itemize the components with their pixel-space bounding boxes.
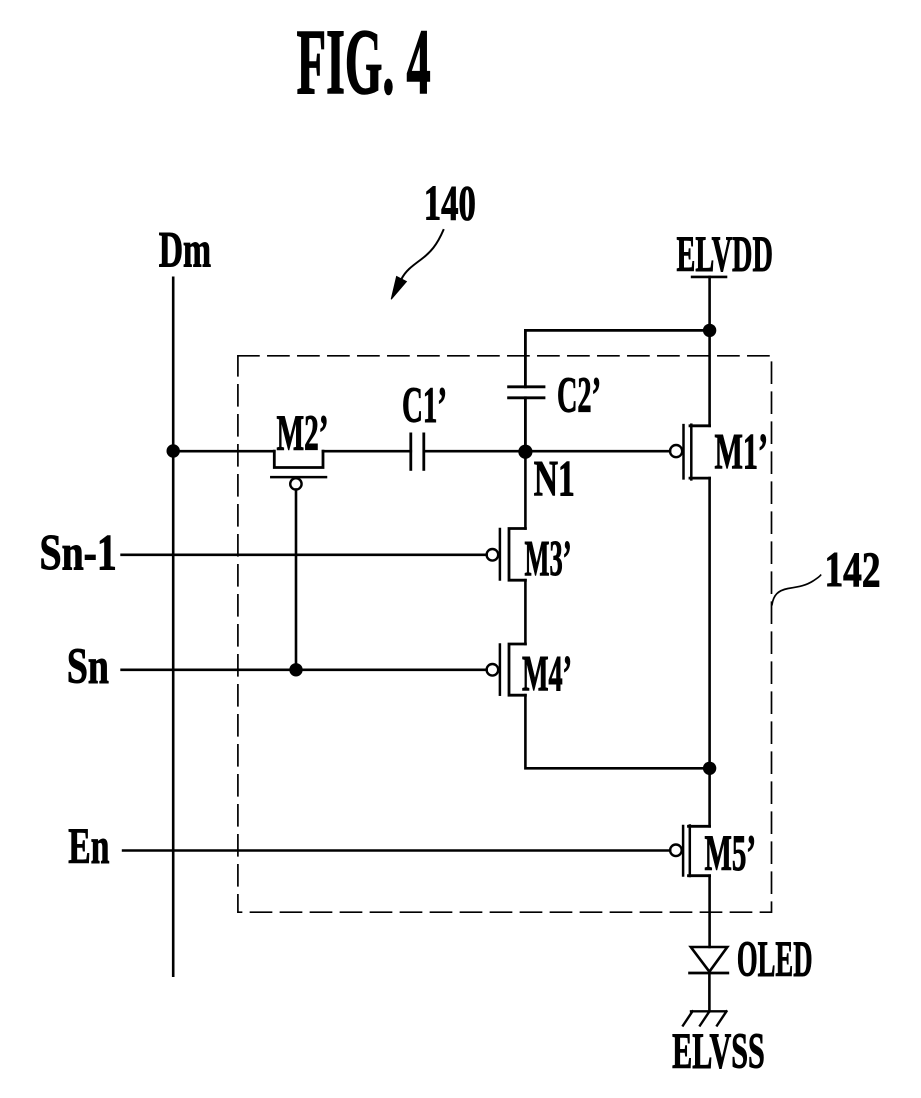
node N1 junction dot bbox=[518, 445, 532, 459]
svg-text:N1: N1 bbox=[534, 452, 575, 508]
wire Dm data line bbox=[172, 278, 175, 976]
junction dot Sn to M2 gate bbox=[289, 663, 302, 676]
wire C1 to N1 bbox=[424, 450, 526, 453]
wire Sn-1 scan line bbox=[122, 553, 487, 556]
leader squiggle for 142 bbox=[772, 575, 821, 605]
svg-text:En: En bbox=[68, 819, 109, 875]
svg-text:C1’: C1’ bbox=[402, 378, 447, 434]
svg-text:ELVSS: ELVSS bbox=[672, 1024, 765, 1080]
wire M3 to M4 bbox=[524, 580, 527, 644]
wire OLED to ground bbox=[708, 973, 711, 1011]
junction dot M1 drain node bbox=[703, 762, 716, 775]
svg-text:M4’: M4’ bbox=[522, 647, 572, 703]
diode OLED bbox=[690, 947, 728, 973]
wire right column bbox=[708, 330, 711, 768]
transistor M3' bbox=[487, 529, 526, 581]
wire M4 drain to right column bbox=[525, 695, 709, 768]
svg-text:ELVDD: ELVDD bbox=[677, 227, 773, 283]
svg-text:Dm: Dm bbox=[159, 222, 211, 278]
ELVDD terminal bar bbox=[692, 276, 726, 279]
svg-text:OLED: OLED bbox=[737, 932, 813, 988]
wire M2 to C1 bbox=[323, 450, 411, 453]
transistor M2' bbox=[271, 451, 326, 489]
wire ELVDD to C2 bbox=[525, 330, 709, 386]
arrow leader for 140 bbox=[391, 230, 443, 299]
capacitor C2' bbox=[509, 387, 544, 452]
transistor M4' bbox=[487, 644, 526, 695]
wire M5 to OLED bbox=[708, 768, 711, 947]
svg-text:140: 140 bbox=[424, 175, 476, 231]
capacitor C1' bbox=[411, 434, 424, 470]
wire ELVDD vertical bbox=[708, 277, 711, 331]
wire N1 to M1 gate bbox=[525, 450, 670, 453]
svg-text:FIG. 4: FIG. 4 bbox=[297, 11, 431, 114]
wire En control line bbox=[123, 849, 670, 852]
junction dot ELVDD node bbox=[703, 324, 716, 337]
svg-text:C2’: C2’ bbox=[557, 368, 601, 424]
wire M2 gate lead bbox=[295, 490, 298, 670]
svg-text:Sn-1: Sn-1 bbox=[40, 526, 117, 582]
svg-text:M1’: M1’ bbox=[715, 425, 769, 481]
ground ELVSS bbox=[683, 1011, 727, 1025]
dashed pixel boundary 140 bbox=[238, 356, 772, 912]
svg-text:Sn: Sn bbox=[67, 639, 109, 695]
junction dot on Dm bbox=[167, 444, 180, 457]
wire Sn scan line bbox=[122, 668, 487, 671]
svg-text:M2’: M2’ bbox=[277, 406, 329, 462]
svg-text:M5’: M5’ bbox=[705, 826, 757, 882]
svg-text:M3’: M3’ bbox=[525, 532, 572, 588]
transistor M5' bbox=[670, 826, 709, 877]
wire Dm to M2 bbox=[173, 450, 274, 453]
svg-text:142: 142 bbox=[825, 541, 881, 597]
wire N1 column down bbox=[524, 452, 527, 529]
transistor M1' bbox=[670, 425, 710, 480]
